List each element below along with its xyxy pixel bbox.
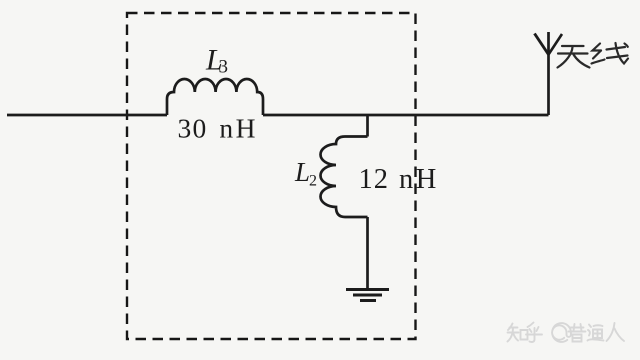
svg-text:L: L [294, 157, 310, 187]
svg-text:3: 3 [219, 57, 229, 78]
inductor L3 [167, 79, 263, 115]
dashed matching-network box [127, 13, 416, 339]
char tong [589, 325, 591, 328]
svg-text:2: 2 [309, 173, 317, 190]
wire right segment [263, 114, 549, 117]
inductor L2 (shunt) [320, 137, 367, 218]
char zhi [508, 324, 513, 331]
antenna arms [535, 34, 549, 55]
char ren [607, 323, 615, 341]
svg-text:12nH: 12nH [359, 164, 439, 195]
ground [346, 288, 389, 291]
at sign [552, 323, 571, 342]
watermark zhihu @putongren [508, 323, 625, 342]
label 天线 (antenna), drawn glyphs [558, 43, 629, 68]
wire left segment [7, 114, 167, 117]
node junction at shunt branch [366, 115, 369, 137]
char hu [528, 323, 534, 328]
wire to ground [366, 217, 369, 289]
antenna mast wire [547, 32, 550, 115]
char pu [571, 327, 584, 329]
